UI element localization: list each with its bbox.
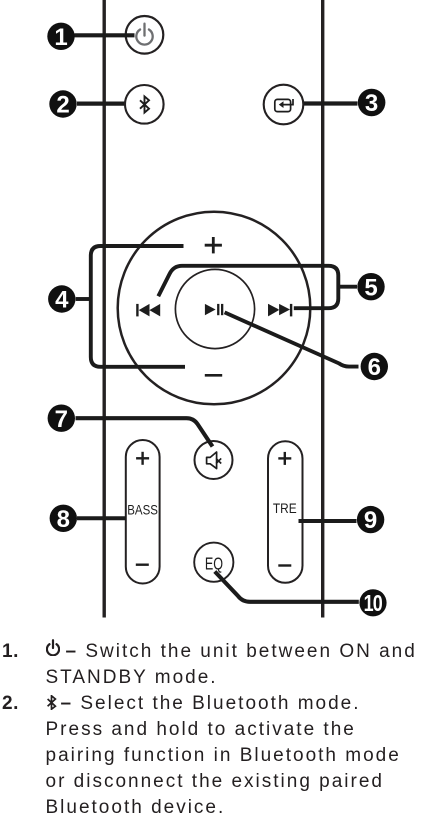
leader line 10 (215, 572, 359, 602)
treble label (273, 500, 297, 516)
leader line 9 (299, 519, 357, 523)
previous track icon (136, 304, 160, 317)
svg-text:TRE: TRE (273, 500, 297, 516)
input icon (275, 99, 293, 112)
svg-text:EQ: EQ (205, 554, 223, 574)
volume minus (205, 374, 222, 377)
leader line 7 (76, 418, 213, 446)
callout 8 (50, 505, 77, 533)
mute speaker icon (207, 452, 222, 469)
callout 4 (48, 285, 75, 313)
mute button circle (195, 441, 233, 479)
svg-text:4: 4 (55, 287, 69, 314)
callout 1 (47, 23, 74, 51)
bracket for callout 4 (91, 246, 185, 367)
bracket for callout 5 (158, 266, 338, 308)
EQ label (205, 554, 223, 574)
svg-text:8: 8 (57, 506, 70, 533)
leader line 6 (225, 312, 359, 366)
svg-text:5: 5 (364, 274, 377, 301)
bass button pill (126, 440, 160, 584)
volume plus (205, 237, 222, 253)
svg-text:2: 2 (56, 92, 69, 119)
svg-text:9: 9 (364, 507, 377, 534)
svg-text:6: 6 (368, 354, 381, 381)
leader line 2 (77, 101, 128, 105)
treble button pill (268, 441, 303, 583)
bass minus (136, 564, 149, 566)
bass label (127, 501, 158, 517)
remote body right edge (321, 0, 324, 618)
bluetooth button circle (125, 85, 164, 124)
leader line 8 (77, 516, 126, 520)
leader line 1 (75, 33, 135, 37)
EQ button circle (194, 543, 233, 582)
callout 6 (361, 353, 388, 381)
callout 7 (48, 405, 75, 433)
description item 2 number (2, 691, 19, 717)
bass plus (136, 452, 149, 465)
callout 3 (358, 89, 386, 117)
svg-text:3: 3 (365, 90, 378, 117)
svg-text:1: 1 (54, 24, 67, 51)
bluetooth icon (140, 96, 149, 112)
svg-text:10: 10 (364, 591, 383, 617)
callout 5 (357, 273, 384, 301)
pad inner circle (175, 269, 254, 348)
svg-text:7: 7 (55, 406, 68, 433)
description item 1 text (46, 639, 424, 691)
input button circle (264, 85, 304, 125)
svg-text:BASS: BASS (127, 501, 158, 517)
treble plus (278, 452, 291, 465)
leader line 4 (76, 297, 90, 301)
description item 1 number (2, 639, 19, 665)
callout 10 (359, 589, 386, 617)
remote body left edge (102, 0, 105, 618)
callout 2 (49, 90, 76, 118)
leader line 5 (338, 285, 357, 289)
play/pause icon (205, 304, 223, 315)
next track icon (268, 304, 292, 317)
pad outer circle (118, 212, 311, 405)
power button circle (126, 16, 164, 54)
callout 9 (357, 506, 384, 534)
leader line 3 (304, 101, 358, 105)
description item 2 text (46, 691, 424, 821)
treble minus (278, 564, 291, 566)
power icon (136, 24, 152, 45)
